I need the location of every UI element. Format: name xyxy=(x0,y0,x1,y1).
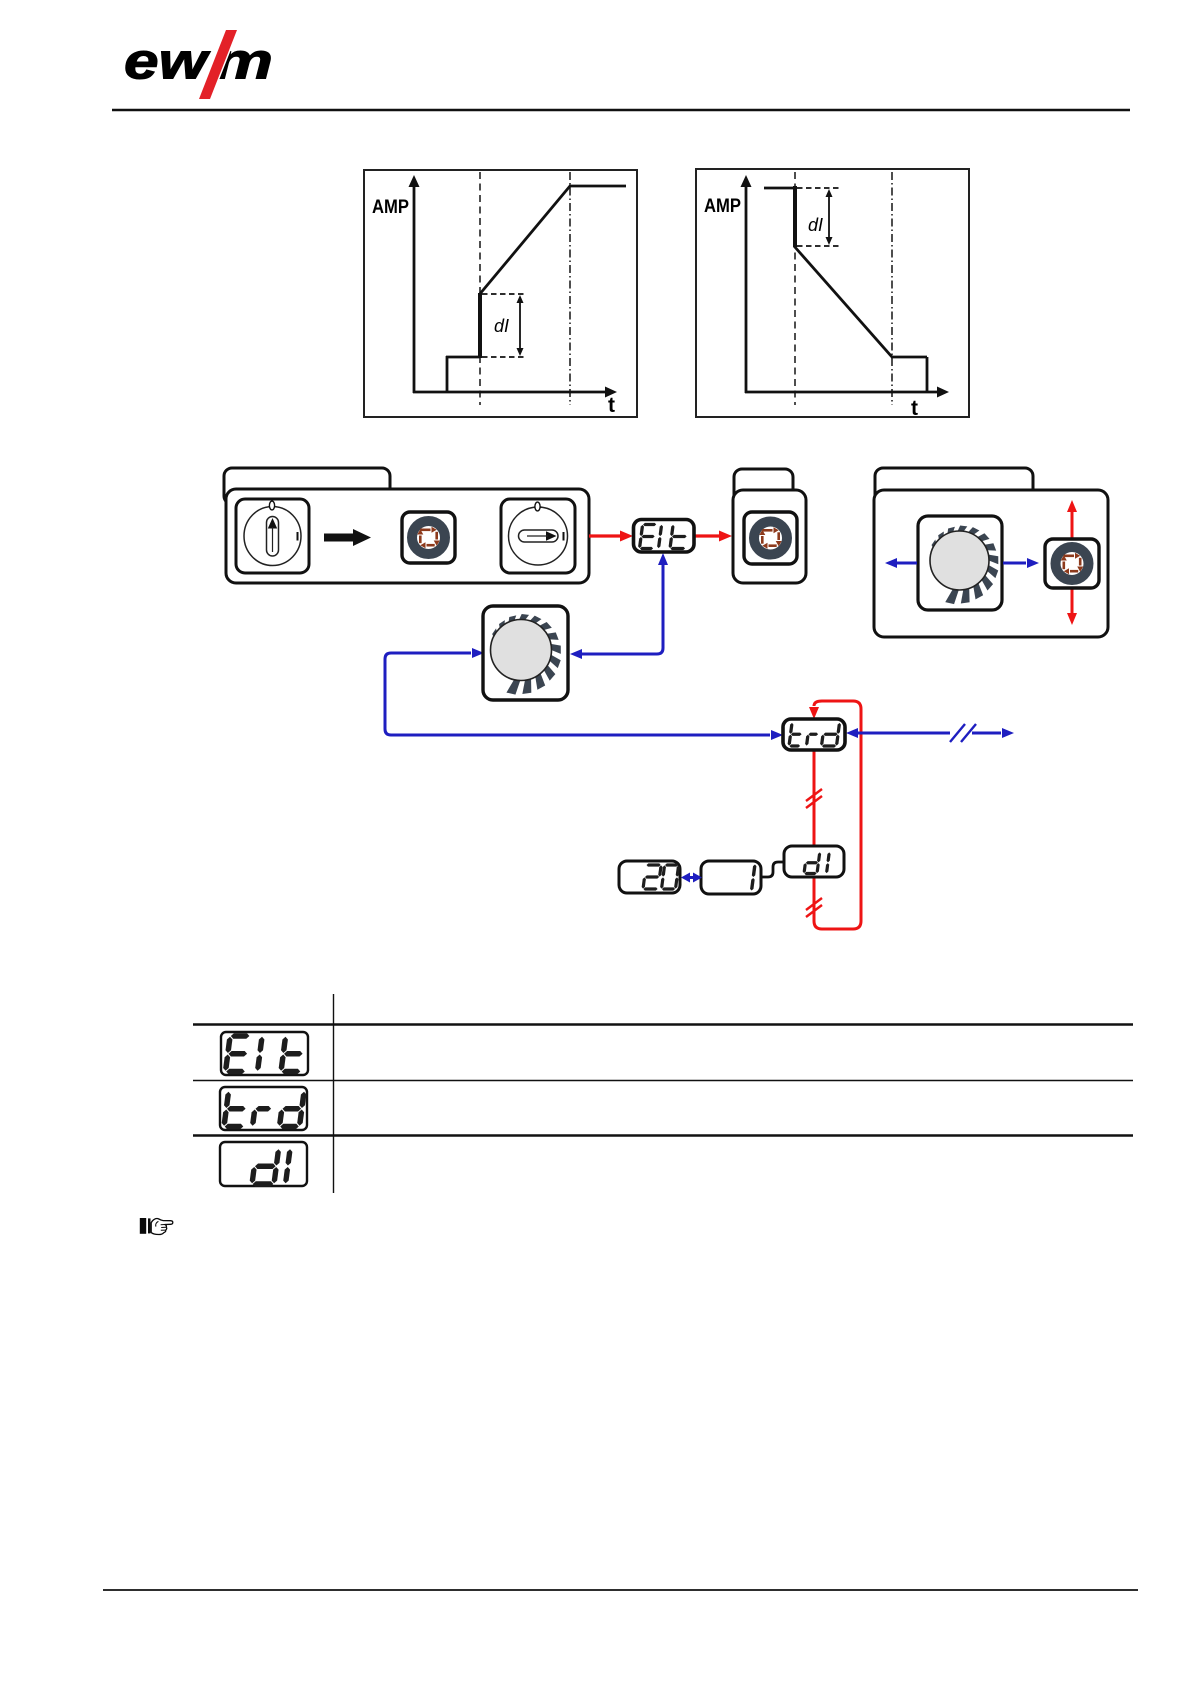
svg-text:t: t xyxy=(911,397,918,420)
svg-text:dI: dI xyxy=(494,316,509,336)
svg-text:t: t xyxy=(608,394,615,417)
svg-text:dI: dI xyxy=(808,215,823,235)
svg-text:ew: ew xyxy=(124,34,211,90)
svg-text:AMP: AMP xyxy=(704,196,741,217)
svg-text:AMP: AMP xyxy=(372,197,409,218)
